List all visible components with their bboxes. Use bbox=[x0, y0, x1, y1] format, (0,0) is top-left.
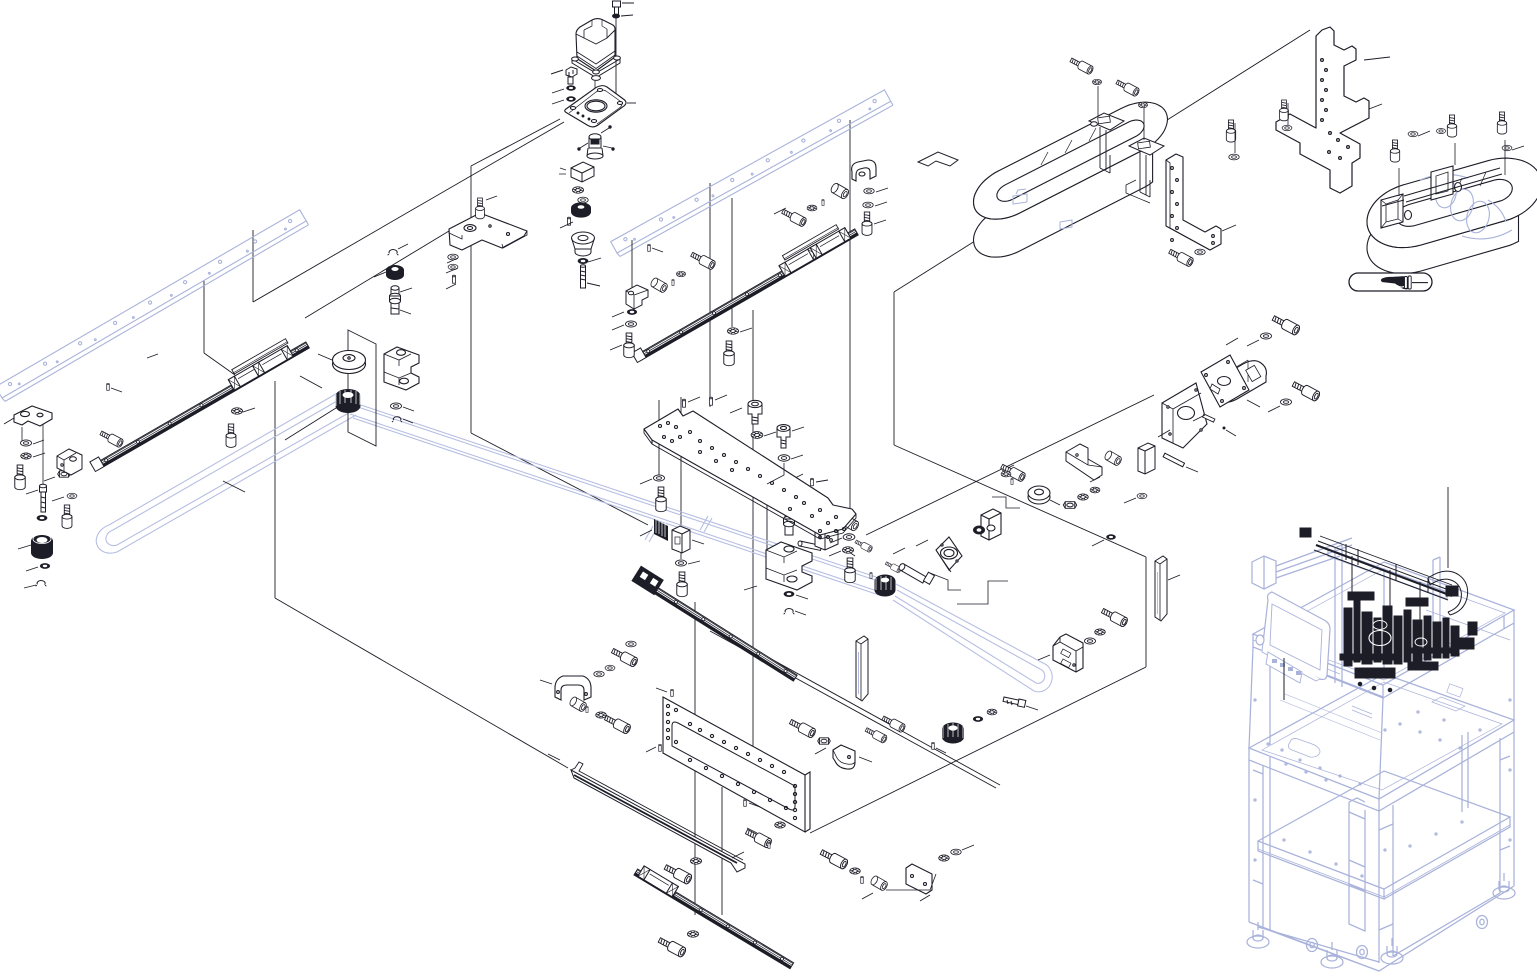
leader line bbox=[875, 202, 887, 206]
leader line bbox=[1124, 498, 1136, 503]
bolt bbox=[862, 212, 872, 235]
leader line bbox=[830, 538, 842, 543]
leader line bbox=[766, 480, 768, 568]
bolt bbox=[1226, 120, 1235, 142]
leader line bbox=[721, 787, 723, 915]
bushing bbox=[840, 514, 860, 532]
panel sheet edge bbox=[253, 122, 564, 302]
leader line bbox=[486, 196, 497, 200]
stiffener bar bbox=[1155, 556, 1167, 621]
motor adapter plate bbox=[1162, 383, 1207, 448]
bolt bbox=[624, 333, 634, 358]
leader line bbox=[1026, 706, 1038, 710]
lock washer bbox=[572, 187, 583, 193]
hook bracket bbox=[918, 152, 958, 166]
zigzag leader bbox=[992, 497, 1020, 508]
bushing bbox=[1104, 450, 1123, 467]
leader line bbox=[612, 312, 624, 317]
zigzag leader bbox=[930, 573, 961, 590]
zigzag leader bbox=[957, 581, 1008, 604]
washer bbox=[864, 188, 874, 194]
pin bbox=[870, 572, 872, 578]
bolt (side) bbox=[99, 429, 124, 448]
stepper motor M1 bbox=[576, 19, 615, 71]
leader line bbox=[52, 497, 64, 501]
leader line bbox=[1090, 477, 1100, 482]
monitor leader bbox=[1283, 658, 1285, 700]
leader line bbox=[374, 272, 386, 277]
bolt bbox=[819, 847, 849, 870]
drive shaft bbox=[898, 563, 935, 585]
washer (dark) bbox=[578, 258, 589, 264]
bolt M2 bbox=[1271, 313, 1301, 336]
spacer block bbox=[1138, 443, 1155, 474]
leader line bbox=[859, 757, 872, 762]
idler pulley bbox=[1028, 486, 1050, 504]
leader line bbox=[843, 548, 855, 556]
pin bbox=[710, 397, 713, 405]
bushing bbox=[650, 277, 669, 294]
bearing (dark) bbox=[386, 265, 404, 280]
carrier top rail bbox=[1382, 168, 1502, 206]
machine monitor bbox=[1256, 592, 1330, 683]
leader bbox=[1097, 86, 1099, 117]
bolt bbox=[1115, 78, 1140, 97]
pin bbox=[671, 689, 674, 696]
leader line bbox=[615, 17, 617, 103]
belt leader bbox=[223, 481, 245, 492]
leader line bbox=[1002, 465, 1014, 471]
set screw bbox=[568, 217, 571, 225]
nut (dark) bbox=[612, 14, 633, 19]
bolt bbox=[1390, 140, 1399, 162]
washer bbox=[594, 671, 604, 677]
leader line bbox=[774, 208, 786, 214]
panel sheet edge bbox=[471, 119, 560, 166]
pin bbox=[586, 706, 588, 712]
leader line bbox=[1158, 430, 1170, 437]
leader line bbox=[936, 748, 946, 753]
tension rod bbox=[1003, 697, 1026, 707]
tensioner block (dark) bbox=[654, 517, 668, 541]
leader line bbox=[400, 310, 411, 314]
washer bbox=[625, 321, 636, 327]
lock washer bbox=[596, 712, 607, 718]
washer bbox=[653, 475, 664, 481]
panel sheet edge bbox=[810, 667, 1146, 833]
washer bbox=[1195, 249, 1205, 255]
washer bbox=[40, 563, 50, 569]
leader line bbox=[588, 258, 601, 262]
leader line bbox=[446, 284, 456, 289]
leader line bbox=[1092, 540, 1104, 546]
washer bbox=[784, 591, 795, 597]
timing pulley (dark) bbox=[571, 202, 591, 217]
bolt bbox=[788, 717, 816, 738]
washer bbox=[1084, 638, 1095, 644]
bearing (dark) bbox=[781, 492, 800, 508]
leader line bbox=[24, 585, 36, 588]
lock washer bbox=[850, 868, 861, 874]
timing pulley (dark) bbox=[336, 389, 361, 413]
belt hatch marks bbox=[645, 516, 712, 542]
washer bbox=[448, 264, 458, 269]
lock washer bbox=[231, 408, 242, 414]
washer bbox=[1436, 128, 1445, 133]
panel sheet edge bbox=[1145, 557, 1147, 667]
leader line bbox=[548, 754, 560, 760]
lock washer bbox=[751, 432, 763, 439]
leader line bbox=[688, 561, 700, 564]
washer bbox=[1260, 333, 1271, 339]
clevis pin bbox=[798, 541, 822, 550]
set bolt bbox=[854, 538, 873, 552]
bolt bbox=[1280, 100, 1289, 121]
washer bbox=[390, 403, 401, 409]
bolt (rail4) bbox=[657, 935, 687, 958]
leader line bbox=[1226, 338, 1238, 345]
nut bbox=[58, 471, 71, 477]
leader line bbox=[920, 895, 930, 901]
washer bbox=[37, 515, 48, 521]
guide mounting bar (left) bbox=[0, 210, 308, 402]
lock washer bbox=[842, 547, 853, 553]
bolt bbox=[1497, 112, 1506, 134]
carrier bracket B bbox=[1126, 138, 1164, 203]
retaining ring bbox=[392, 417, 402, 422]
panel sheet edge bbox=[710, 631, 996, 788]
leader line bbox=[1186, 467, 1198, 472]
carrier bracket A bbox=[1089, 113, 1124, 173]
leader line bbox=[446, 268, 458, 273]
stepper motor M2 bbox=[1214, 360, 1267, 403]
leader line bbox=[640, 530, 652, 536]
linear rail (upper left) bbox=[85, 331, 309, 472]
washer bbox=[973, 716, 983, 722]
washer bbox=[627, 309, 637, 315]
leader line bbox=[747, 828, 757, 833]
leader line bbox=[866, 395, 1154, 535]
leader line bbox=[560, 222, 573, 228]
pin bbox=[744, 799, 747, 806]
panel sheet edge bbox=[274, 381, 276, 598]
machine gantry beam (black) bbox=[1300, 528, 1458, 620]
anchor plate bbox=[906, 864, 932, 894]
bolt bbox=[1447, 115, 1456, 137]
leader line bbox=[1038, 655, 1050, 660]
guide mounting bar (center) bbox=[611, 90, 893, 257]
bolt (rail4) bbox=[663, 862, 693, 885]
leader line bbox=[1247, 340, 1259, 346]
shaft flange plate bbox=[936, 537, 962, 572]
threaded stud bbox=[40, 484, 47, 512]
angle strip bbox=[571, 762, 745, 872]
leader line bbox=[403, 407, 414, 411]
leader line bbox=[21, 427, 23, 441]
leader line bbox=[447, 258, 458, 263]
leader line bbox=[680, 397, 682, 559]
leader line bbox=[111, 388, 122, 392]
idler pulley (flat) bbox=[333, 351, 366, 374]
leader line from bracket bbox=[305, 231, 449, 318]
bolt bbox=[690, 250, 717, 270]
leader line bbox=[815, 748, 826, 754]
leader line bbox=[147, 354, 158, 358]
slide block bbox=[815, 521, 838, 550]
bolt bbox=[1100, 606, 1128, 627]
leader line bbox=[816, 480, 828, 482]
washer bbox=[1280, 399, 1291, 405]
door bracket bbox=[555, 676, 591, 700]
leader line bbox=[795, 510, 806, 514]
washer bbox=[626, 641, 636, 647]
washer bbox=[1106, 534, 1116, 539]
leader line bbox=[744, 586, 757, 590]
leader line bbox=[694, 602, 696, 915]
leader line bbox=[652, 248, 663, 252]
pin bbox=[811, 478, 814, 486]
linear rail (lower) bbox=[634, 864, 797, 969]
tensioner shaft bbox=[784, 509, 795, 535]
spring washer bbox=[566, 85, 576, 90]
washer bbox=[1408, 131, 1418, 136]
leader line bbox=[33, 440, 44, 444]
set bolt bbox=[884, 560, 901, 573]
leader line bbox=[796, 595, 808, 599]
lock washer bbox=[690, 858, 701, 864]
lock washer bbox=[987, 709, 997, 715]
cable carrier (left) bbox=[974, 102, 1168, 257]
leader line bbox=[688, 397, 700, 402]
leader line bbox=[874, 220, 886, 224]
washer bbox=[778, 455, 790, 461]
leader line bbox=[204, 353, 235, 375]
cable coil (blue) bbox=[1420, 174, 1512, 238]
leader line bbox=[769, 499, 781, 504]
washer bbox=[951, 849, 961, 855]
leader line bbox=[962, 845, 974, 850]
leader bbox=[1143, 108, 1145, 140]
sensor block bbox=[559, 162, 594, 182]
linear rail (upper center) bbox=[627, 218, 858, 363]
panel sheet edge bbox=[470, 166, 472, 433]
leader line bbox=[1222, 225, 1236, 231]
bolt head-down bbox=[748, 400, 762, 424]
encoder connector bbox=[578, 126, 614, 159]
retaining ring bbox=[36, 581, 47, 587]
bolt bbox=[744, 827, 772, 848]
leader line bbox=[1168, 575, 1180, 580]
leader line bbox=[791, 455, 803, 459]
belt clamp clevis bbox=[384, 347, 419, 390]
bolt (bracket) bbox=[476, 198, 485, 219]
panel sheet edge bbox=[275, 598, 568, 768]
leader line bbox=[42, 424, 44, 484]
leader line bbox=[792, 427, 804, 431]
washer bbox=[1502, 145, 1512, 150]
bolt bbox=[864, 726, 888, 744]
bolt bbox=[677, 572, 687, 597]
leader line bbox=[893, 548, 905, 554]
panel sheet edge bbox=[894, 30, 1310, 292]
retaining ring bbox=[784, 609, 795, 615]
washer bbox=[67, 493, 77, 498]
bushing bbox=[870, 875, 889, 892]
lock washer bbox=[807, 205, 817, 211]
pin bbox=[932, 742, 935, 749]
pin bbox=[822, 199, 824, 205]
lock washer bbox=[1078, 494, 1089, 500]
leader line bbox=[540, 680, 552, 684]
washer bbox=[448, 254, 458, 260]
carrier clip (blue) bbox=[1013, 189, 1027, 204]
leader bbox=[1234, 123, 1236, 153]
tensioner shaft bbox=[390, 286, 401, 314]
machine head assembly (black) bbox=[1340, 544, 1477, 692]
carrier2 link ticks bbox=[1432, 172, 1486, 199]
leader line bbox=[1447, 487, 1449, 568]
lock washer bbox=[1001, 471, 1011, 477]
pin bbox=[861, 876, 864, 883]
leader line bbox=[640, 479, 652, 484]
pin bbox=[1011, 478, 1013, 484]
washer bbox=[20, 440, 31, 446]
linear rail (middle) bbox=[632, 566, 802, 682]
pin bbox=[683, 399, 686, 407]
leader line bbox=[876, 188, 888, 192]
leader line bbox=[318, 354, 332, 360]
machine film curl bbox=[1428, 571, 1468, 615]
leader bbox=[1287, 103, 1289, 125]
leader line bbox=[587, 283, 600, 286]
washer bbox=[605, 665, 615, 670]
leader line bbox=[752, 310, 754, 750]
carrier frame bracket C bbox=[1381, 194, 1412, 228]
motor face plate bbox=[1201, 355, 1249, 407]
carrier clip (blue) 2 bbox=[1060, 220, 1072, 229]
set screw dot bbox=[1223, 427, 1237, 437]
panel sheet edge bbox=[893, 292, 895, 445]
leader line bbox=[26, 567, 38, 571]
bolt bbox=[1069, 56, 1094, 75]
bolt bbox=[62, 505, 72, 528]
corner bracket L bbox=[57, 449, 82, 475]
bushing bbox=[569, 696, 588, 713]
leader line bbox=[656, 688, 667, 692]
pin bbox=[659, 744, 662, 751]
motor flange rim bbox=[572, 56, 621, 80]
clamp saddle bbox=[852, 160, 876, 181]
leader line bbox=[33, 453, 45, 457]
hex bolt (top) bbox=[613, 1, 635, 15]
shaft key pin bbox=[1203, 414, 1215, 422]
corner clamp bbox=[833, 745, 855, 769]
retaining ring bbox=[783, 480, 794, 486]
leader line bbox=[646, 747, 656, 752]
retaining ring bbox=[388, 250, 399, 256]
carrier link ticks bbox=[1041, 128, 1096, 165]
belt clamp bracket bbox=[672, 526, 690, 553]
gantry riser plate (Z shaped) bbox=[1276, 27, 1369, 193]
sensor bracket plate bbox=[449, 213, 527, 250]
leader bbox=[1454, 143, 1456, 165]
bolt M4 bbox=[15, 465, 25, 490]
X-beam side plate bbox=[663, 697, 810, 832]
drive belt loop (left end) bbox=[96, 391, 356, 553]
nut bbox=[1063, 502, 1076, 509]
carrier frame bracket D bbox=[1431, 166, 1462, 200]
motor bracket L bbox=[1066, 444, 1102, 480]
washer bbox=[1137, 493, 1147, 498]
leader line bbox=[1369, 104, 1382, 109]
hex bolt (flange) bbox=[551, 67, 577, 84]
pin bbox=[768, 842, 770, 848]
leader line bbox=[793, 474, 803, 479]
leader line bbox=[764, 432, 776, 436]
bolt bbox=[610, 646, 638, 667]
leader line bbox=[740, 328, 752, 332]
leader bbox=[285, 408, 336, 440]
flanged pulley (dark) bbox=[31, 534, 53, 559]
leader bbox=[1504, 140, 1506, 175]
drive pulley (dark) bbox=[875, 575, 896, 597]
bolt bbox=[603, 713, 631, 734]
lock washer bbox=[775, 822, 786, 828]
leader line bbox=[610, 345, 622, 350]
belt anchor bracket bbox=[1053, 634, 1083, 672]
leader line bbox=[715, 395, 727, 400]
stud bolt bbox=[581, 265, 586, 288]
bolt (rail1) bbox=[226, 424, 236, 447]
bolt bbox=[881, 714, 906, 733]
bolt bbox=[781, 207, 808, 227]
panel sheet edge bbox=[704, 622, 1000, 785]
washer bbox=[1282, 125, 1292, 130]
lock washer bbox=[939, 855, 950, 861]
leader line bbox=[1050, 500, 1060, 505]
leader line bbox=[552, 100, 564, 104]
panel sheet edge bbox=[471, 433, 648, 525]
bolt bbox=[724, 341, 734, 366]
motor adapter plate bbox=[565, 86, 636, 127]
pin bbox=[648, 244, 651, 251]
washer bbox=[566, 96, 576, 101]
leader line bbox=[1193, 415, 1205, 421]
belt clamp clevis bbox=[766, 542, 812, 590]
leader bbox=[300, 376, 322, 388]
Y-carriage plate bbox=[644, 409, 856, 539]
leader line bbox=[732, 852, 744, 858]
leader line bbox=[18, 545, 31, 549]
bent leader bbox=[767, 463, 784, 484]
washer bbox=[1229, 154, 1239, 160]
leader line bbox=[731, 198, 733, 327]
panel sheet edge bbox=[252, 230, 254, 302]
drive belt loop (right end) bbox=[893, 584, 1052, 692]
leader line bbox=[631, 240, 633, 288]
lock washer bbox=[1090, 487, 1100, 493]
leader line bbox=[709, 183, 711, 407]
bolt bbox=[1168, 247, 1195, 267]
bearing ring (dark) bbox=[973, 526, 985, 535]
leader line bbox=[1247, 400, 1260, 407]
bolt head-down bbox=[777, 425, 790, 448]
leader line bbox=[749, 803, 760, 807]
lock washer bbox=[1138, 102, 1147, 107]
bolt bbox=[845, 558, 855, 583]
timing pulley (dark) bbox=[942, 723, 964, 744]
bolt bbox=[656, 487, 666, 512]
